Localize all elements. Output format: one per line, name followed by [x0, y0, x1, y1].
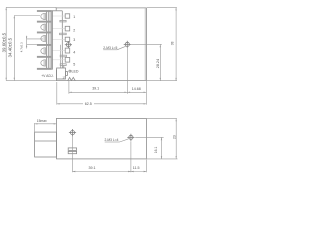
svg-text:39.1: 39.1: [89, 166, 96, 170]
svg-text:39.60±0.5: 39.60±0.5: [2, 32, 7, 52]
svg-text:62.5: 62.5: [85, 102, 92, 106]
svg-text:4: 4: [73, 50, 75, 54]
svg-text:2: 2: [73, 29, 75, 33]
svg-text:2-M3 L=5: 2-M3 L=5: [103, 46, 117, 50]
svg-text:14.68: 14.68: [132, 87, 141, 91]
svg-text:28.24: 28.24: [156, 59, 160, 68]
svg-text:2-M3 L=4: 2-M3 L=4: [105, 138, 119, 142]
svg-text:34.40±0.5: 34.40±0.5: [8, 37, 13, 57]
svg-text:11.5: 11.5: [133, 166, 140, 170]
svg-text:+V ADJ.: +V ADJ.: [41, 74, 53, 78]
svg-text:3: 3: [73, 38, 75, 42]
svg-text:4.7±0.3: 4.7±0.3: [20, 42, 24, 52]
svg-text:38: 38: [171, 41, 175, 45]
svg-text:15max: 15max: [37, 119, 47, 123]
svg-text:16.1: 16.1: [154, 147, 158, 154]
svg-text:39.1: 39.1: [92, 87, 99, 91]
svg-text:LED: LED: [72, 69, 79, 73]
svg-text:5: 5: [73, 63, 75, 67]
svg-text:23: 23: [172, 135, 176, 139]
svg-text:1: 1: [73, 15, 75, 19]
